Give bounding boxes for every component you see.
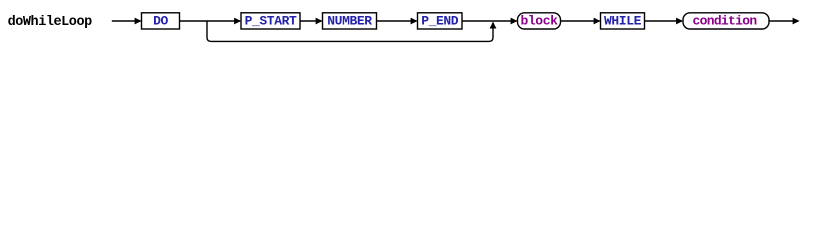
svg-text:DO: DO <box>153 13 168 28</box>
arrowhead into WHILE <box>594 18 601 25</box>
final arrowhead <box>793 18 800 25</box>
svg-text:block: block <box>520 13 558 28</box>
wire NUMBER to P_END <box>377 20 417 22</box>
arrowhead up rejoining main line <box>490 22 497 29</box>
arrowhead into block <box>511 18 518 25</box>
wire block to WHILE <box>561 20 600 22</box>
svg-text:P_END: P_END <box>421 13 459 28</box>
svg-text:WHILE: WHILE <box>604 13 642 28</box>
svg-text:condition: condition <box>693 13 758 28</box>
terminal NUMBER <box>323 13 377 29</box>
terminal P_START <box>241 13 300 29</box>
wire start to DO <box>112 20 141 22</box>
skip branch wire (down from junction, under boxes, up with arrow) <box>207 21 493 41</box>
svg-text:doWhileLoop: doWhileLoop <box>8 15 93 30</box>
terminal P_END <box>418 13 463 29</box>
non-terminal block <box>518 13 561 29</box>
non-terminal condition <box>683 13 769 29</box>
arrowhead into condition <box>676 18 683 25</box>
wire DO to P_START <box>180 20 241 22</box>
terminal DO <box>142 13 180 29</box>
railroad diagram: doWhileLoop <box>0 0 814 63</box>
wire P_END to block <box>462 20 517 22</box>
arrowhead into P_END <box>411 18 418 25</box>
terminal WHILE <box>601 13 645 29</box>
svg-text:NUMBER: NUMBER <box>327 13 372 28</box>
arrowhead into NUMBER <box>316 18 323 25</box>
wire condition to end <box>769 20 799 22</box>
svg-text:P_START: P_START <box>245 13 297 28</box>
arrowhead into P_START <box>234 18 241 25</box>
wire WHILE to condition <box>645 20 683 22</box>
wire P_START to NUMBER <box>300 20 322 22</box>
arrowhead into DO <box>135 18 142 25</box>
